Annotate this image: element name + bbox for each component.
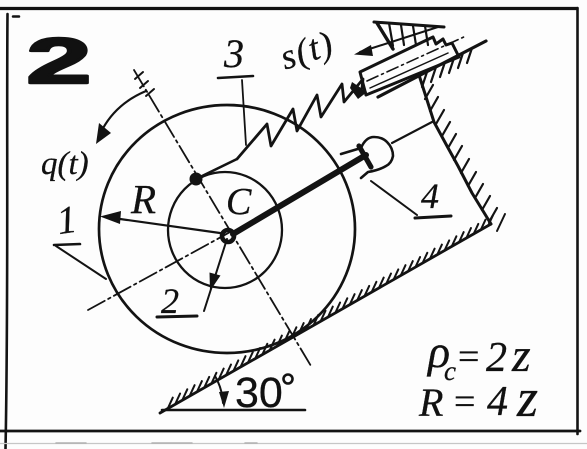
spring zigzag (3) [237,79,363,159]
svg-text:C: C [226,181,252,223]
label 1 underline [54,244,80,245]
wheel inner circle (2) [168,172,282,288]
frame top border line [0,7,577,10]
piston rod from C [233,155,366,234]
svg-text:q(t): q(t) [41,146,89,182]
label 4 leader line [371,181,417,215]
label 3 leader line [242,80,246,145]
inner radius arrowhead [210,273,221,292]
svg-text:4: 4 [487,379,508,425]
small scan speck top-left [13,15,19,18]
faint smudge marks bottom [56,442,257,444]
30 degree arc arrowhead [219,391,229,408]
reference ticks on upper axis end [135,72,154,96]
svg-text:2: 2 [161,281,179,321]
degree symbol [284,375,293,384]
label 2 underline [157,316,197,317]
label 4 underline [415,216,451,218]
center C marker [222,230,234,242]
frame bottom border line [0,430,580,433]
s(t) arrowhead [354,45,373,56]
q(t) rotation arrow arc [101,91,146,132]
figure number 2 [27,25,92,97]
spring anchor plate on block [350,82,367,99]
descending wall hatching [425,85,497,222]
label 1 leader line [56,246,106,279]
incline surface line [160,224,491,413]
svg-text:R: R [418,380,443,425]
radius arrow to inner circle [204,239,227,311]
faint next-row line at bottom [0,443,587,445]
damper anchor link to wall [392,122,432,143]
svg-text:2: 2 [486,335,507,381]
svg-text:30: 30 [235,369,283,417]
svg-text:4: 4 [421,176,439,216]
damper bell housing [341,137,393,178]
svg-text:2: 2 [27,25,92,97]
slider block inner line [370,53,448,88]
q(t) arrowhead [96,123,111,144]
label 3 underline [218,76,253,78]
piston T-bar [359,146,371,167]
formula R = 4r [418,368,538,428]
ground baseline [162,409,305,412]
R arrowhead [100,211,121,224]
frame left border line [6,14,8,449]
incline hatching [168,216,493,408]
slot lower guide hatching [422,48,472,87]
spring lower link from dot [198,159,237,178]
30 degree angle arc [215,376,223,403]
svg-text:=: = [454,381,475,423]
upper wall hatching [377,23,428,49]
radius R arrow [106,217,220,233]
descending wall line [419,75,491,224]
formula rho_c = 2r [426,326,531,386]
svg-text:3: 3 [223,31,244,76]
svg-text:1: 1 [54,198,79,243]
svg-text:s(t): s(t) [275,23,339,78]
wheel big circle (1) [99,105,355,353]
upper wall edge line [374,22,444,27]
slider block axis dash-dot [367,36,466,81]
svg-text:R: R [130,176,156,222]
slot lower guide rail line [378,41,486,97]
axis dash-dot line parallel to incline [88,231,232,310]
svg-text:z: z [516,368,538,428]
detached incline tick past corner [497,214,505,231]
slider block outline [360,37,459,95]
frame right border line [576,8,579,434]
axis dash-dot line perpendicular to incline [134,70,311,366]
svg-text:=: = [458,336,479,378]
spring attachment dot [190,173,203,186]
s(t) displacement arrow [360,27,438,52]
